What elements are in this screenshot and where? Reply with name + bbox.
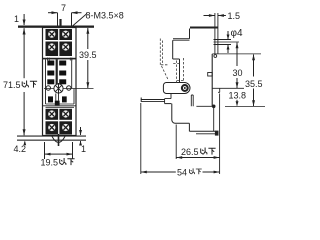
dim 26.5 extension lines <box>176 94 219 175</box>
rear lower edge <box>213 108 215 132</box>
lever head rounded rect <box>163 83 190 94</box>
lever screw center dot <box>184 87 186 89</box>
kanji i (26.5) <box>201 148 207 155</box>
bottom second line <box>196 133 216 135</box>
dim 1 bottom-right down arrow <box>79 127 82 135</box>
lever arm lines <box>141 100 165 102</box>
step to foot <box>165 103 172 105</box>
dim 26.5 dimension line <box>176 156 219 159</box>
phi4 hole upper edge <box>214 39 232 41</box>
svg-text:71.5: 71.5 <box>3 80 21 90</box>
lower extension line right dims <box>225 105 265 107</box>
pin slots col1 <box>47 61 54 85</box>
rear bottom dot <box>212 105 216 109</box>
lever arm nub <box>140 98 142 102</box>
side step at 59 <box>173 58 180 60</box>
hidden lever dashed outline <box>160 39 184 84</box>
pilot hole right <box>67 86 71 90</box>
rear foot box <box>215 131 219 136</box>
din hook arc <box>52 136 65 142</box>
svg-text:26.5: 26.5 <box>181 147 199 157</box>
din rail top line <box>212 87 244 89</box>
bottom block screws row1 <box>48 110 69 117</box>
phi4 hole center line <box>214 41 240 43</box>
arm root vertical <box>164 99 166 104</box>
back notch box <box>208 73 213 77</box>
label 71.5 ika <box>3 80 21 90</box>
dim 1 bottom-right up arrow <box>79 141 82 146</box>
top block screws row2 <box>48 43 69 50</box>
phi4 hole lower edge <box>214 44 232 46</box>
rear chamber bottom <box>196 105 212 107</box>
dim 71.5 vertical line lower with down arrow <box>23 92 26 135</box>
svg-text:4.2: 4.2 <box>14 144 27 154</box>
side body back edge <box>211 54 213 106</box>
back pin circle <box>214 55 217 58</box>
front body outline <box>43 28 77 136</box>
dim 7 extension lines <box>58 13 72 27</box>
center channel verticals <box>56 94 59 101</box>
kanji i (54) <box>189 168 194 174</box>
dim phi4 up arrow <box>227 45 230 54</box>
dim 1.5 line left with arrow <box>204 14 216 17</box>
svg-text:35.5: 35.5 <box>245 79 263 89</box>
dim 54 dimension line left part <box>141 171 176 174</box>
center mount hole <box>54 83 63 94</box>
foot step down <box>188 123 190 131</box>
foot front edge <box>172 104 190 124</box>
bottom block screws row2 <box>48 124 69 131</box>
strip bottom line extended <box>212 53 261 55</box>
dim 35.5 down arrow <box>252 89 255 107</box>
kanji shita (19.5) <box>67 159 74 165</box>
svg-text:54: 54 <box>177 168 187 178</box>
svg-text:φ4: φ4 <box>231 28 243 39</box>
dim 7 dimension line right <box>72 11 82 14</box>
clip slot tab above plate <box>59 19 61 26</box>
svg-text:30: 30 <box>233 68 243 78</box>
kanji shita (26.5) <box>208 148 215 154</box>
kanji i (71.5) <box>22 81 28 88</box>
svg-text:1.5: 1.5 <box>228 11 241 21</box>
leader line for 8-M3.5x8 <box>73 14 88 27</box>
svg-text:7: 7 <box>61 3 66 13</box>
mount hole center line <box>44 88 94 90</box>
side plate top edge <box>190 27 218 29</box>
bottom plate lower line <box>17 140 86 141</box>
front view mounting plate top edge <box>18 26 94 28</box>
middle section top line <box>43 58 77 60</box>
top block screws row1 <box>48 31 69 38</box>
head-to-arm step <box>165 94 171 99</box>
middle inner frame verticals <box>46 60 75 105</box>
dim 30 down arrow <box>236 78 239 88</box>
dim 54 extension line left <box>140 103 142 174</box>
bottom edge to rear <box>189 130 215 132</box>
side top step vertical <box>189 29 191 39</box>
lever screw ring <box>182 85 188 91</box>
hook center tick <box>58 134 60 146</box>
dim 35.5 up arrow <box>252 54 255 76</box>
middle section pin ticks <box>48 58 72 61</box>
svg-text:19.5: 19.5 <box>41 158 59 168</box>
dim 19.5 extension lines <box>45 142 73 159</box>
svg-text:8-M3.5×8: 8-M3.5×8 <box>86 11 124 21</box>
side front upper vertical <box>172 40 174 59</box>
lever guide verticals <box>191 95 193 106</box>
bottom plate upper line <box>17 136 86 137</box>
kanji i (19.5) <box>60 158 66 165</box>
pin slots col2 <box>59 61 66 85</box>
pilot hole left <box>46 86 50 90</box>
din rail hook <box>218 88 220 92</box>
dim 19.5 dimension line <box>45 153 73 156</box>
dim 54 dimension line right part <box>203 171 220 174</box>
dim phi4 down arrow <box>227 31 230 40</box>
side front mid vertical <box>179 59 181 83</box>
top terminal block <box>46 29 73 56</box>
bottom terminal block <box>46 109 73 135</box>
dim 71.5 vertical line upper <box>23 28 26 78</box>
pin slots row4 <box>48 96 67 105</box>
dim 13.8 down arrow <box>236 100 239 106</box>
kanji shita (54) <box>196 169 202 174</box>
svg-text:1: 1 <box>81 144 86 154</box>
side step double line <box>173 39 190 41</box>
dim 30 up arrow <box>236 42 239 66</box>
svg-text:13.8: 13.8 <box>229 91 247 101</box>
dim 4.2 up arrow <box>23 141 26 146</box>
svg-text:1: 1 <box>14 14 19 24</box>
dim 7 dimension line left <box>48 11 58 14</box>
dim 39.5 up arrow <box>86 28 89 49</box>
center bar <box>56 60 58 85</box>
dim 1.5 line right with arrow <box>218 14 226 17</box>
svg-text:39.5: 39.5 <box>79 50 97 60</box>
dim 39.5 lower line with down arrow <box>86 60 89 88</box>
lower frame lines <box>43 104 77 107</box>
side plate rear strip <box>215 13 218 54</box>
dim 1 top-left arrow down <box>23 14 26 26</box>
kanji shita (71.5) <box>30 81 37 87</box>
